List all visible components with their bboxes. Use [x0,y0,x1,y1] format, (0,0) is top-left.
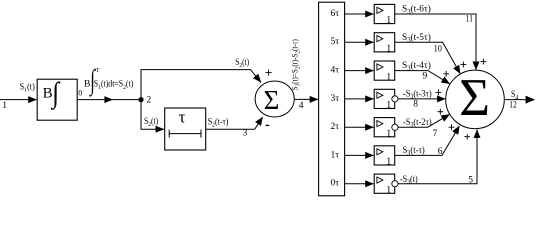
svg-text:2: 2 [147,96,152,106]
wire tap 3τ to amp [345,95,374,102]
wire tap 2τ to amp [345,124,374,131]
wire input 1 [0,96,37,103]
wire amp 2tau to summer2 (net 7) [398,114,450,127]
label S3(t-tau) [403,145,425,157]
wire amp 4tau to summer2 (net 9) [395,71,450,84]
plus sign net 11 [481,59,487,65]
svg-text:T: T [96,67,100,74]
label -S3(t) [400,174,418,186]
svg-text:-S3​(t-2τ): -S3​(t-2τ) [403,117,432,129]
label S3(t-5tau) [402,32,431,44]
label -S3(t-3tau) [403,89,432,101]
plus sign net 9 [443,71,449,77]
svg-text:B: B [43,86,53,102]
svg-text:S2​(t-τ): S2​(t-τ) [208,116,229,128]
svg-text:1: 1 [386,185,391,196]
plus sign net 10 [461,62,467,68]
plus sign net 5 [464,134,470,140]
svg-text:3: 3 [243,129,248,139]
svg-text:9: 9 [423,72,428,82]
svg-text:2τ: 2τ [331,122,340,132]
svg-text:τ: τ [179,108,186,127]
wire amp 3tau to summer2 (net 8) [398,95,446,102]
integrator block B [37,76,77,120]
wire output S4 (net 12) [504,96,534,104]
svg-text:4τ: 4τ [331,66,340,76]
tapped delay line box [319,2,345,196]
amp block gain 1 (row 0τ) [374,174,395,196]
svg-text:B: B [84,80,90,90]
svg-text:1: 1 [386,72,391,83]
svg-text:1τ: 1τ [331,150,340,160]
wire tap 1τ to amp [345,152,374,159]
wire tau to summer1 (-) [206,117,263,129]
plus sign net 6 [449,124,455,130]
label S3(t-4tau) [402,60,431,72]
svg-text:S2​(t): S2​(t) [144,116,158,128]
plus sign net 8 [436,90,442,96]
svg-text:5τ: 5τ [331,37,340,47]
svg-text:S3​(t-4τ): S3​(t-4τ) [402,60,431,72]
node 2 (junction dot) [138,97,143,102]
svg-text:S1​(t): S1​(t) [20,81,35,93]
label S4 [511,90,519,101]
summer 2 (large sigma circle) [446,69,505,129]
label S3(t-6tau) [402,4,431,16]
wire amp 5tau to summer2 (net 10) [395,42,461,74]
svg-text:Σ: Σ [459,69,490,127]
svg-text:S3​(t-6τ): S3​(t-6τ) [402,4,431,16]
amp block gain 1 (row 4τ) [374,61,395,83]
svg-text:1: 1 [386,44,391,55]
label S3(t)=S2(t)-S2(t-tau) vertical [291,39,302,90]
svg-text:12: 12 [509,100,517,110]
wire integrator to node 2 [77,96,141,103]
label B*integral_0^T S1(t)dt = S2(t) [78,65,133,98]
label S2(t) upper [235,57,249,69]
label -S3(t-2tau) [403,117,432,129]
plus sign net 7 [437,109,443,115]
svg-text:1: 1 [386,15,391,26]
delay block tau [165,108,206,151]
svg-text:6: 6 [438,147,443,157]
wire amp 1tau to summer2 (net 6) [395,126,460,156]
svg-text:10: 10 [434,44,443,54]
svg-text:8: 8 [413,100,418,110]
amp block gain 1 (row 5τ) [374,33,395,55]
minus sign summer1 [266,124,270,126]
svg-text:0τ: 0τ [331,179,340,189]
svg-text:4: 4 [299,101,304,111]
svg-text:11: 11 [466,14,473,24]
svg-text:1: 1 [386,157,391,168]
amp block gain 1 (row 3τ) [374,89,395,111]
amp block gain 1 (row 2τ) [374,118,395,140]
wire tap 4τ to amp [345,67,374,74]
wire node2 up to summer1 (+) [141,70,261,100]
summer 1 (small sigma circle) [255,81,294,117]
wire amp 0tau to summer2 (net 5) [398,129,481,183]
inverter bubble (row 2τ) [392,124,398,130]
label S1(t) [20,81,35,93]
svg-text:1: 1 [2,101,7,111]
inverter bubble (row 3τ) [392,96,398,102]
svg-text:Σ: Σ [264,85,280,115]
wire node2 down to delay tau [141,100,164,133]
amp block gain 1 (row 6τ) [374,4,395,26]
svg-text:S3​(t-τ): S3​(t-τ) [403,145,425,157]
label S2(t-tau) [208,116,229,128]
svg-text:1: 1 [386,100,391,111]
svg-text:3τ: 3τ [331,94,340,104]
wire tap 5τ to amp [345,39,374,46]
svg-text:5: 5 [468,175,473,185]
inverter bubble (row 0τ) [392,181,398,187]
wire tap 6τ to amp [345,11,374,18]
svg-text:7: 7 [433,129,438,139]
wire summer1 to tapped delay line [294,96,318,103]
wire tap 0τ to amp [345,180,374,187]
svg-text:1: 1 [386,128,391,139]
label S2(t) lower [144,116,158,128]
svg-text:6τ: 6τ [331,9,340,19]
svg-text:S2​(t): S2​(t) [235,57,249,69]
svg-text:S3​(t-5τ): S3​(t-5τ) [402,32,431,44]
svg-text:0: 0 [78,89,82,98]
wire amp 6tau to summer2 (net 11) [395,14,480,70]
amp block gain 1 (row 1τ) [374,146,395,168]
plus sign summer1 [266,70,272,76]
